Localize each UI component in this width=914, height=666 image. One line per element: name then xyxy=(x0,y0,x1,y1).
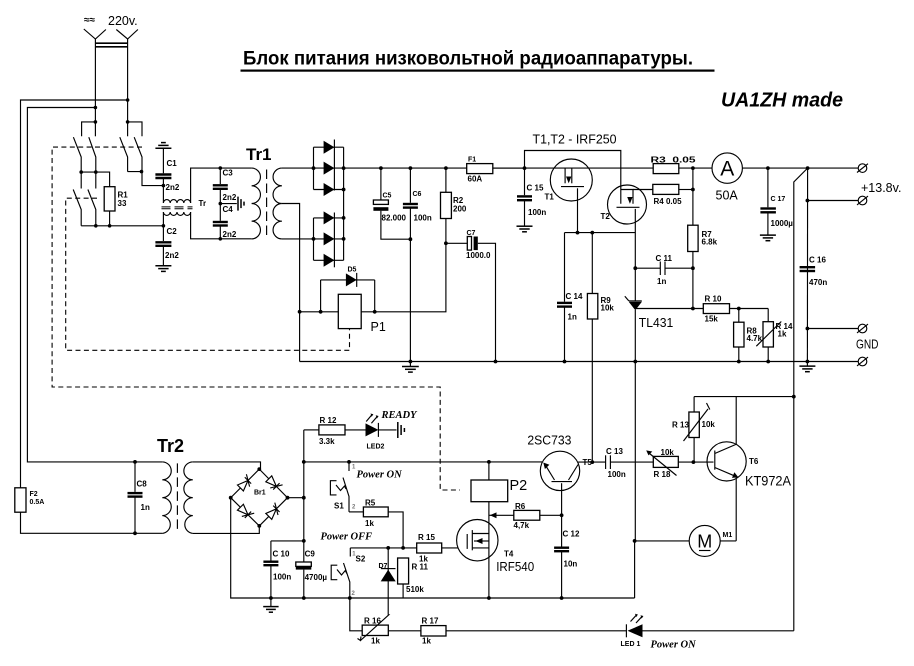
svg-text:1n: 1n xyxy=(657,277,666,286)
svg-text:4,7k: 4,7k xyxy=(514,521,530,530)
terminal +13.8 lower xyxy=(806,196,869,205)
resistor R6 xyxy=(489,502,563,530)
svg-text:R4 0.05: R4 0.05 xyxy=(654,197,683,206)
resistor R3 xyxy=(651,156,713,174)
svg-text:1k: 1k xyxy=(365,519,374,528)
+column vertical xyxy=(303,430,305,562)
capacitor C14 xyxy=(557,233,583,364)
svg-text:D5: D5 xyxy=(348,267,357,274)
wire: contact bottoms to R1 top xyxy=(81,172,109,187)
svg-text:10k: 10k xyxy=(661,448,675,457)
svg-text:10n: 10n xyxy=(564,560,578,569)
node wire S2/D7/R11/R15 xyxy=(350,547,416,549)
svg-text:T4: T4 xyxy=(504,550,514,559)
svg-text:M: M xyxy=(697,532,712,552)
svg-text:2n2: 2n2 xyxy=(165,251,179,260)
svg-text:R5: R5 xyxy=(365,499,376,508)
relay coil P2 xyxy=(471,460,527,600)
relay contact group K1.1 (left pair, upper row) xyxy=(73,122,95,172)
svg-text:IRF540: IRF540 xyxy=(496,559,534,574)
wire: bridge minus down to 0V rail xyxy=(231,498,635,598)
bridge rectifier Br1 xyxy=(231,469,288,526)
resistor R4 xyxy=(633,184,693,206)
resistor R5 xyxy=(349,499,403,548)
wire: choke bottom-left down to C2 node xyxy=(162,212,164,226)
svg-text:33: 33 xyxy=(118,199,127,208)
svg-text:S2: S2 xyxy=(356,555,366,564)
svg-text:READY: READY xyxy=(381,410,419,421)
svg-text:C6: C6 xyxy=(413,191,422,198)
svg-text:6.8k: 6.8k xyxy=(702,238,718,247)
svg-text:T2: T2 xyxy=(601,212,611,221)
resistor R9 xyxy=(587,233,614,462)
motor M1 xyxy=(633,525,737,556)
diode D1 xyxy=(314,146,344,148)
diode D4c xyxy=(314,259,344,261)
svg-text:C2: C2 xyxy=(167,227,178,236)
svg-text:P1: P1 xyxy=(371,320,386,334)
svg-text:1000µ: 1000µ xyxy=(771,219,794,228)
switch S1 Power ON xyxy=(330,460,356,512)
svg-text:C 10: C 10 xyxy=(273,550,290,559)
source node wire xyxy=(565,232,636,234)
output vertical xyxy=(806,168,808,361)
svg-text:470n: 470n xyxy=(809,278,827,287)
diode D2 xyxy=(314,167,344,169)
sideways ground at C3/C4 midpoint xyxy=(220,197,244,211)
svg-text:60A: 60A xyxy=(468,175,483,184)
svg-text:C9: C9 xyxy=(305,550,316,559)
transformer Tr2 core xyxy=(176,463,178,531)
svg-text:C 14: C 14 xyxy=(566,292,583,301)
main +rail top xyxy=(344,167,467,169)
svg-text:510k: 510k xyxy=(406,585,424,594)
svg-text:C 12: C 12 xyxy=(563,530,580,539)
capacitor C1 xyxy=(155,159,179,203)
wire: lower contacts / R1 bottom to C2 node xyxy=(81,225,163,227)
svg-text:1n: 1n xyxy=(568,313,577,322)
svg-text:T1,T2 - IRF250: T1,T2 - IRF250 xyxy=(533,131,617,146)
svg-text:Блок питания низковольтной рад: Блок питания низковольтной радиоаппарату… xyxy=(243,49,693,70)
diode stack D1-D3 cathode bar xyxy=(333,140,335,191)
wire: secondary top to bridge xyxy=(193,462,261,469)
relay contact group K1.2 (right pair, upper row) xyxy=(120,122,164,186)
svg-text:1k: 1k xyxy=(422,637,431,646)
wire: T5 collector to C13 xyxy=(578,461,606,463)
svg-text:1k: 1k xyxy=(778,330,787,339)
ground below rail end xyxy=(799,362,815,372)
diode cathode rail xyxy=(343,147,345,260)
svg-text:R 15: R 15 xyxy=(418,533,435,542)
svg-text:C7: C7 xyxy=(467,230,476,237)
potentiometer R13 xyxy=(672,397,715,463)
svg-text:Tr: Tr xyxy=(199,199,207,208)
svg-text:C 17: C 17 xyxy=(771,196,786,203)
capacitor C8 xyxy=(128,460,150,535)
svg-text:4700µ: 4700µ xyxy=(305,573,328,582)
fuse F1 60A xyxy=(467,157,525,184)
svg-text:T6: T6 xyxy=(749,457,759,466)
svg-text:C 11: C 11 xyxy=(656,254,673,263)
resistor R15 xyxy=(417,533,458,564)
diode D5 xyxy=(321,267,375,312)
capacitor C7 (1000.0) xyxy=(446,230,498,363)
sense jog and vertical xyxy=(794,168,808,631)
dashed mech link lower contacts xyxy=(66,198,350,350)
capacitor C9 (4700u) xyxy=(296,550,328,600)
wire: secondary center tap down xyxy=(282,204,300,362)
wire: P1 node line xyxy=(300,311,339,313)
svg-text:R 10: R 10 xyxy=(705,295,722,304)
wire: left lead to left edge xyxy=(27,108,162,462)
svg-text:M1: M1 xyxy=(723,532,733,539)
wire: bridge plus to +column xyxy=(288,497,304,499)
ground symbol at rail xyxy=(402,362,419,373)
capacitor C6 xyxy=(403,166,432,363)
resistor R11 510k xyxy=(398,558,429,598)
svg-text:C 16: C 16 xyxy=(809,256,826,265)
svg-text:1k: 1k xyxy=(371,637,380,646)
wire: R3/R4 join to R7 xyxy=(692,168,694,225)
svg-text:C8: C8 xyxy=(137,480,148,489)
wire: right lead to left edge xyxy=(21,100,128,488)
transformer Tr2 secondary xyxy=(184,462,193,533)
svg-text:1n: 1n xyxy=(141,503,150,512)
svg-text:R 13: R 13 xyxy=(672,421,689,430)
svg-text:R 17: R 17 xyxy=(422,617,439,626)
bracket R13/T6 collector to sense line xyxy=(694,396,794,398)
capacitor C5 (82.000u) xyxy=(373,166,410,239)
svg-text:10k: 10k xyxy=(601,304,615,313)
svg-text:UA1ZH made: UA1ZH made xyxy=(721,90,843,112)
wire: secondary bottom to lower diode stack xyxy=(282,238,314,240)
svg-text:T1: T1 xyxy=(545,193,555,202)
wire: TL431 to R10 xyxy=(635,308,703,310)
transformer Tr2 primary xyxy=(162,462,171,533)
diode D4b xyxy=(314,238,344,240)
ground above C1 xyxy=(155,143,171,174)
wire: choke top-right up to C3 node xyxy=(191,168,252,203)
svg-text:1000.0: 1000.0 xyxy=(466,251,491,260)
svg-text:Tr1: Tr1 xyxy=(246,145,272,164)
svg-text:100n: 100n xyxy=(528,208,546,217)
svg-text:2n2: 2n2 xyxy=(223,193,237,202)
svg-text:KT972A: KT972A xyxy=(745,473,791,488)
diode D7 xyxy=(379,548,396,615)
capacitor C16 xyxy=(800,256,828,288)
svg-text:C1: C1 xyxy=(167,159,178,168)
svg-text:GND: GND xyxy=(856,336,879,351)
capacitor C10 xyxy=(263,541,303,606)
svg-text:Power ON: Power ON xyxy=(651,640,697,651)
mains plug xyxy=(84,29,138,48)
diode stack D1-D3 left rail xyxy=(313,147,315,189)
capacitor C3 xyxy=(213,166,237,203)
capacitor C17 xyxy=(760,166,793,235)
ground rail upper section xyxy=(300,361,808,363)
svg-text:2n2: 2n2 xyxy=(166,183,180,192)
wire: choke bottom-right to C4 bottom node xyxy=(191,212,252,239)
node dots mains xyxy=(126,98,130,102)
svg-text:R 16: R 16 xyxy=(364,617,381,626)
svg-text:F2: F2 xyxy=(30,491,38,498)
relay contact group K1.3 (left pair, lower row) xyxy=(73,172,96,226)
svg-text:200: 200 xyxy=(453,205,467,214)
resistor R16 pot xyxy=(348,596,389,645)
MOSFET T4 IRF540 xyxy=(457,520,514,561)
shunt regulator TL431 xyxy=(625,268,674,363)
diode D3 xyxy=(314,189,344,191)
svg-text:Power ON: Power ON xyxy=(357,470,403,481)
svg-text:A: A xyxy=(720,158,734,181)
svg-text:15k: 15k xyxy=(705,315,719,324)
svg-text:Br1: Br1 xyxy=(254,490,266,497)
resistor R17 xyxy=(388,617,626,646)
svg-text:C 13: C 13 xyxy=(606,447,623,456)
diode stack D4-D6 cathode bar xyxy=(333,213,335,268)
wire: TL431 column down to 0V rail corner xyxy=(634,362,637,599)
ground below C10 xyxy=(263,607,278,613)
ground below C2 xyxy=(155,266,171,272)
svg-text:100n: 100n xyxy=(414,214,432,223)
dashed mech link upper contacts xyxy=(52,147,460,490)
transformer Tr1 core xyxy=(266,170,268,238)
transistor T6 KT972A xyxy=(707,397,759,541)
MOSFET T2 (IRF250) xyxy=(601,185,647,268)
resistor R8 xyxy=(734,307,763,364)
svg-text:F1: F1 xyxy=(468,157,476,164)
capacitor C13 xyxy=(606,447,654,479)
capacitor C2 xyxy=(155,224,179,266)
svg-text:2n2: 2n2 xyxy=(223,230,237,239)
diode stack D4-D6 left rail xyxy=(313,218,315,260)
wire: rail jog up to T2 drain xyxy=(525,151,621,204)
svg-text:≈≈: ≈≈ xyxy=(84,15,95,26)
MOSFET T1 (IRF250) xyxy=(493,159,653,233)
svg-text:R 12: R 12 xyxy=(320,416,337,425)
switch S2 Power OFF xyxy=(331,548,366,598)
svg-text:100n: 100n xyxy=(608,470,626,479)
svg-text:LED 1: LED 1 xyxy=(621,641,641,648)
wire: secondary bottom to bridge xyxy=(193,526,259,534)
svg-text:C5: C5 xyxy=(383,193,392,200)
svg-text:R 11: R 11 xyxy=(412,563,429,572)
diode D4 xyxy=(314,217,344,219)
svg-text:Tr2: Tr2 xyxy=(157,436,184,456)
terminal GND upper xyxy=(806,324,869,333)
sideways ground after LED2 xyxy=(398,422,405,438)
svg-text:2SC733: 2SC733 xyxy=(527,433,571,447)
svg-text:R6: R6 xyxy=(515,502,526,511)
transformer Tr1 primary xyxy=(252,168,261,239)
svg-text:S1: S1 xyxy=(334,502,344,511)
svg-text:82.000: 82.000 xyxy=(382,214,407,223)
transistor T5 2SC733 xyxy=(540,451,592,515)
svg-text:220v.: 220v. xyxy=(108,14,138,28)
fuse F2 0.5A xyxy=(15,488,163,534)
terminal +13.8 upper xyxy=(857,164,868,173)
capacitor C15 xyxy=(517,168,546,226)
svg-text:C3: C3 xyxy=(223,169,234,178)
svg-text:1k: 1k xyxy=(419,555,428,564)
resistor R2 xyxy=(441,166,467,245)
wire: secondary top to diode stack / main rail xyxy=(282,167,314,169)
svg-text:TL431: TL431 xyxy=(639,315,674,330)
potentiometer R18 xyxy=(646,448,713,479)
relay coil P1 xyxy=(338,294,361,328)
potentiometer R14 xyxy=(756,309,793,364)
svg-text:3.3k: 3.3k xyxy=(319,437,335,446)
lower +rail xyxy=(304,461,542,463)
svg-text:+13.8v.: +13.8v. xyxy=(861,181,901,195)
LED2 xyxy=(345,414,397,451)
ground below C17 xyxy=(760,235,776,241)
resistor R12 xyxy=(304,416,345,446)
svg-text:100n: 100n xyxy=(273,573,291,582)
common-mode choke Tr xyxy=(162,200,193,216)
capacitor C12 xyxy=(554,515,580,600)
capacitor C4 xyxy=(213,202,237,241)
svg-text:R 18: R 18 xyxy=(654,470,671,479)
wire: plug down-leads xyxy=(94,48,96,137)
ground below C15 xyxy=(517,226,533,232)
resistor R7 xyxy=(688,225,718,308)
svg-text:C 15: C 15 xyxy=(527,184,544,193)
svg-text:10k: 10k xyxy=(702,420,716,429)
svg-text:Power OFF: Power OFF xyxy=(321,532,373,543)
svg-text:C4: C4 xyxy=(223,205,234,214)
svg-text:0.5A: 0.5A xyxy=(30,499,45,506)
resistor R1 xyxy=(104,187,115,211)
ammeter A 50A xyxy=(712,153,858,203)
svg-text:P2: P2 xyxy=(510,478,528,494)
resistor R10 xyxy=(703,295,768,324)
terminal GND lower xyxy=(806,357,869,366)
LED1 xyxy=(621,614,794,648)
transformer Tr1 secondary xyxy=(273,168,282,239)
svg-text:50A: 50A xyxy=(716,189,739,203)
svg-text:LED2: LED2 xyxy=(367,444,385,451)
capacitor C11 xyxy=(633,254,694,286)
